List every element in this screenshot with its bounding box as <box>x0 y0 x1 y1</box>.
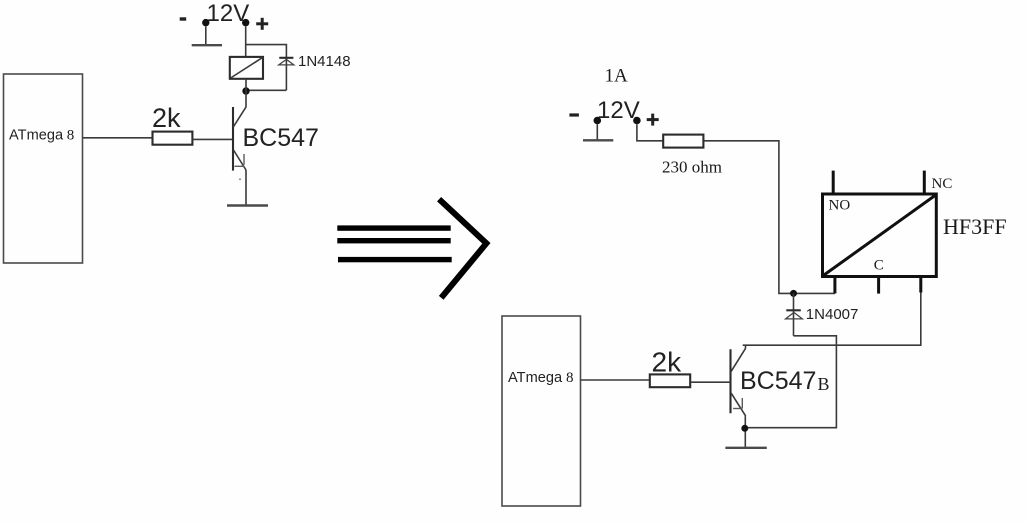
wire coil to collector <box>245 79 247 108</box>
node dot plus terminal (right) <box>633 117 641 125</box>
node dot emitter junction (right) <box>741 425 748 432</box>
ground Q1 emitter <box>227 204 268 206</box>
svg-text:HF3FF: HF3FF <box>943 214 1007 239</box>
svg-text:8: 8 <box>67 128 75 144</box>
wire ATmega to R3 <box>581 379 650 381</box>
relay coil K1 <box>230 57 263 79</box>
transistor Q1 BC547 <box>233 107 246 205</box>
svg-text:1N4148: 1N4148 <box>298 53 351 70</box>
resistor R3 <box>650 374 690 387</box>
node dot collector junction (left) <box>242 87 249 94</box>
ground G1 (supply left) <box>192 26 222 45</box>
transistor Q2 BC547 <box>731 345 746 447</box>
wire R2 to relay K2 <box>703 141 835 294</box>
svg-text:NO: NO <box>829 198 851 214</box>
relay pin NC top-right <box>923 171 926 194</box>
svg-text:NC: NC <box>932 176 953 192</box>
arrow chevron <box>439 199 486 298</box>
svg-text:8: 8 <box>566 370 574 386</box>
wire relay pin to collector <box>743 293 921 346</box>
relay pin coil bottom-right <box>919 277 922 293</box>
svg-text:1A: 1A <box>605 66 629 87</box>
relay pin coil bottom-left <box>833 277 836 294</box>
diode D1 1N4148 <box>246 58 294 91</box>
wire R1 to Q1 base <box>192 138 233 140</box>
resistor R2 230ohm <box>663 135 703 148</box>
relay pin NO top-left <box>832 171 835 194</box>
node dot plus terminal (left) <box>242 19 249 26</box>
wire ATmega to R1 <box>83 137 153 139</box>
resistor R1 <box>153 132 193 145</box>
IC U1 ATmega8 box (left) <box>4 74 83 263</box>
svg-text:1N4007: 1N4007 <box>806 306 859 323</box>
wire branch to diode D1 <box>246 45 287 91</box>
supply minus label (right) <box>569 113 579 116</box>
supply minus label (left) <box>180 17 187 20</box>
svg-text:ATmega: ATmega <box>9 128 64 144</box>
arrow bars <box>337 225 451 262</box>
IC U2 ATmega8 box (right) <box>502 316 581 506</box>
relay pin C bottom-middle <box>877 277 880 294</box>
svg-text:B: B <box>818 374 830 394</box>
supply plus label (left) <box>256 18 268 30</box>
svg-text:230 ohm: 230 ohm <box>662 158 722 177</box>
ground G2 (supply right) <box>583 124 613 140</box>
svg-text:BC547: BC547 <box>243 124 319 152</box>
diode D2 1N4007 <box>745 293 837 427</box>
node dot diode junction (right) <box>790 290 797 297</box>
node dot minus terminal (right) <box>594 117 602 125</box>
svg-text:2k: 2k <box>652 347 683 378</box>
wire R3 to Q2 base <box>690 381 730 383</box>
relay K2 diagonal <box>824 196 935 276</box>
wire plus to R2 <box>637 124 663 141</box>
supply plus label (right) <box>647 114 659 126</box>
svg-text:ATmega: ATmega <box>508 370 563 386</box>
wire plus to relay coil K1 <box>245 26 247 57</box>
svg-text:BC547: BC547 <box>740 367 816 395</box>
svg-text:2k: 2k <box>152 103 181 133</box>
ground Q2 emitter <box>725 447 766 449</box>
svg-text:C: C <box>874 258 884 274</box>
relay K2 HF3FF box <box>823 194 937 277</box>
node dot minus terminal (left) <box>202 19 209 26</box>
